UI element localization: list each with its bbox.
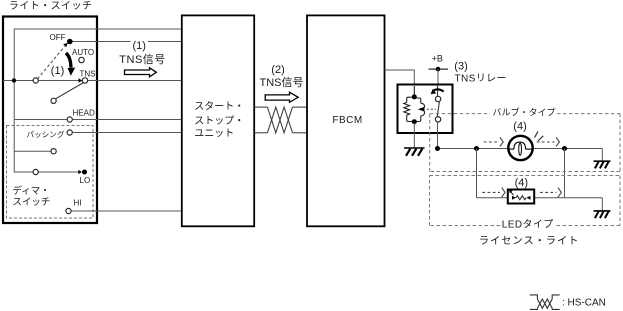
svg-text:ユニット: ユニット bbox=[194, 129, 234, 140]
svg-text:+B: +B bbox=[432, 54, 443, 64]
svg-text:(4): (4) bbox=[513, 120, 526, 132]
svg-text:ディマ・: ディマ・ bbox=[12, 185, 49, 197]
svg-text:TNSリレー: TNSリレー bbox=[455, 74, 507, 85]
svg-text:: HS-CAN: : HS-CAN bbox=[562, 298, 606, 309]
svg-text:パッシング: パッシング bbox=[27, 129, 65, 139]
svg-text:FBCM: FBCM bbox=[332, 115, 362, 126]
svg-text:ライセンス・ライト: ライセンス・ライト bbox=[479, 235, 580, 247]
svg-text:OFF: OFF bbox=[50, 33, 66, 42]
svg-text:(4): (4) bbox=[515, 177, 528, 189]
svg-text:(1): (1) bbox=[51, 65, 64, 77]
svg-text:HI: HI bbox=[74, 199, 82, 208]
svg-text:AUTO: AUTO bbox=[72, 48, 94, 57]
svg-text:バルブ・タイプ: バルブ・タイプ bbox=[493, 107, 556, 118]
svg-text:LEDタイプ: LEDタイプ bbox=[502, 218, 554, 230]
svg-text:ストップ・: ストップ・ bbox=[194, 115, 244, 127]
svg-text:(2): (2) bbox=[271, 64, 284, 76]
svg-text:HEAD: HEAD bbox=[73, 109, 95, 118]
svg-text:スイッチ: スイッチ bbox=[12, 197, 50, 208]
svg-text:TNS信号: TNS信号 bbox=[260, 76, 304, 89]
svg-text:スタート・: スタート・ bbox=[194, 101, 244, 113]
svg-text:(1): (1) bbox=[133, 40, 146, 52]
svg-text:TNS: TNS bbox=[80, 70, 96, 79]
svg-text:ライト・スイッチ: ライト・スイッチ bbox=[9, 0, 93, 12]
svg-text:TNS信号: TNS信号 bbox=[119, 53, 166, 66]
svg-text:LO: LO bbox=[80, 176, 91, 185]
svg-text:(3): (3) bbox=[454, 61, 467, 73]
